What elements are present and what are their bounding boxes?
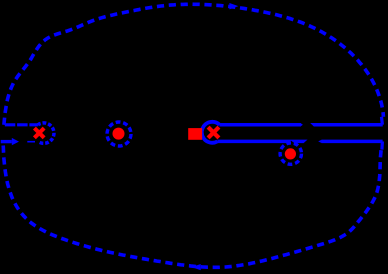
red X at pole 1 (34, 128, 44, 138)
branch cut top line left segment (solid) (219, 123, 301, 127)
direction arrow on bottom of ellipse (pointing left) (192, 264, 201, 270)
left slit arrow (pointing right) (12, 138, 19, 145)
dashed circle around pole 2 (107, 122, 131, 146)
red dot at pole 2 (113, 128, 125, 140)
branch cut bottom line right segment arrow tip (318, 140, 322, 144)
red square marker at centre (188, 128, 202, 140)
right junction solid corner lower (380, 141, 384, 149)
dashed circle around right pole (280, 143, 301, 164)
red X at centre branch point (208, 127, 219, 138)
left slit bottom line first segment (1, 140, 12, 143)
red dot at right pole (285, 148, 296, 159)
direction arrow on top of ellipse (pointing right) (229, 3, 238, 9)
branch cut bottom line left segment (solid, tapered end) (217, 140, 307, 144)
branch cut top line left segment arrow tip (301, 123, 303, 127)
branch cut bottom line right segment (solid) (322, 140, 383, 144)
left slit bottom line thin segment (27, 141, 35, 143)
indentation circle around centre branch point (solid, open right) (202, 122, 220, 143)
contour ellipse upper arc (dashed) (4, 4, 384, 125)
right junction solid corner upper (380, 117, 384, 125)
notch where right pole circle bites cut line (287, 141, 295, 144)
branch cut top line right segment (solid, beveled start) (310, 123, 383, 127)
contour ellipse lower arc (dashed) (3, 142, 381, 267)
detour arc around pole 1 (dashed, open left) (38, 123, 54, 143)
left slit top line (dashed long) (5, 123, 38, 126)
